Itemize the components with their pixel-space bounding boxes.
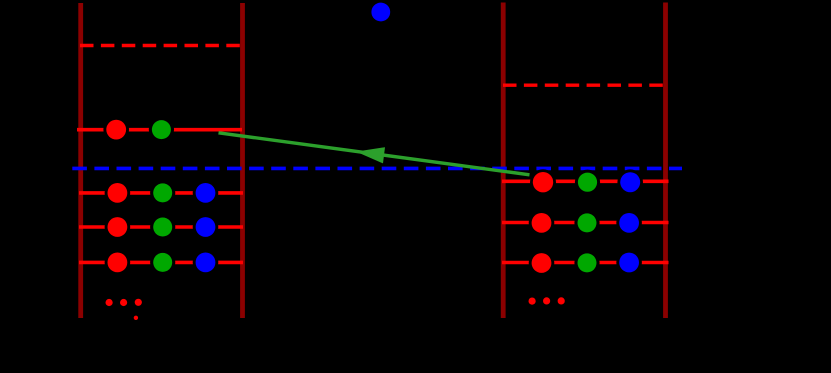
left ellipsis dot 1 — [106, 299, 113, 306]
row3 red atom — [105, 250, 131, 276]
left excited green atom — [149, 117, 174, 142]
right trap level row 3 line — [502, 261, 669, 265]
green transfer arrow head — [356, 147, 385, 163]
left trap level row 3 line — [79, 261, 243, 265]
row2 blue atom — [193, 214, 219, 240]
right row1 red atom — [530, 169, 556, 195]
left trap right wall — [240, 3, 245, 318]
left trap left wall — [78, 3, 83, 318]
right trap level row 2 line — [502, 221, 669, 225]
row3 green atom — [150, 250, 175, 275]
right trap level row 1 line — [502, 180, 669, 184]
right trap left wall — [501, 3, 506, 319]
right row3 red atom — [529, 250, 555, 276]
left ellipsis dot 3 — [135, 299, 142, 306]
left excited red atom — [103, 117, 129, 143]
row1 green atom — [150, 180, 175, 205]
right trap right wall — [663, 3, 668, 319]
right row2 blue atom — [616, 210, 642, 236]
right row3 green atom — [574, 250, 599, 275]
left trap level row 1 line — [79, 191, 243, 195]
right row3 blue atom — [616, 250, 642, 276]
right ellipsis dot 1 — [529, 298, 536, 305]
row2 red atom — [105, 214, 131, 240]
row3 blue atom — [193, 250, 219, 276]
right row2 red atom — [529, 210, 555, 236]
blue dashed threshold line — [72, 167, 682, 171]
right row1 blue atom — [617, 169, 643, 195]
left ellipsis dot 2 — [120, 299, 127, 306]
green transfer arrow shaft — [219, 133, 530, 175]
right ellipsis dot 2 — [543, 297, 550, 304]
left trap excited level line — [77, 128, 242, 132]
row1 blue atom — [193, 180, 219, 206]
right row2 green atom — [574, 210, 599, 235]
row2 green atom — [150, 214, 175, 239]
left small dot below ellipsis — [134, 316, 138, 320]
left trap level row 2 line — [79, 225, 243, 229]
escaped blue atom — [371, 3, 390, 22]
row1 red atom — [105, 180, 131, 206]
right trap depth dashed line — [503, 83, 666, 86]
left trap depth dashed line — [80, 44, 244, 47]
right row1 green atom — [575, 170, 600, 195]
right ellipsis dot 3 — [558, 297, 565, 304]
